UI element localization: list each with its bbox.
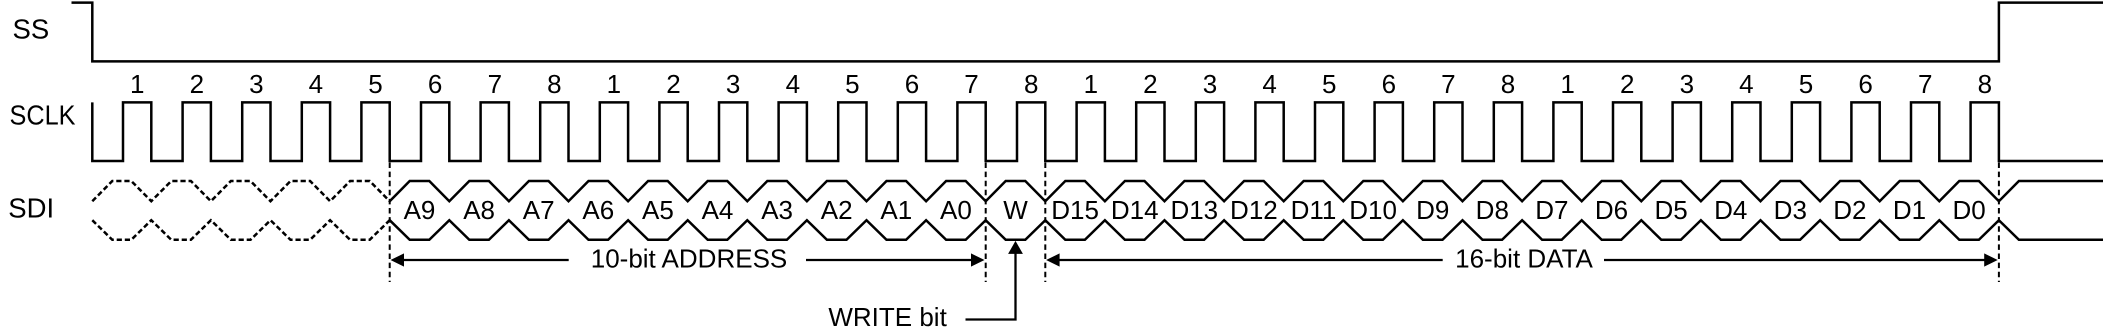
svg-text:D12: D12 bbox=[1230, 195, 1278, 225]
svg-text:4: 4 bbox=[309, 69, 323, 99]
svg-text:3: 3 bbox=[1680, 69, 1694, 99]
svg-text:A8: A8 bbox=[463, 195, 495, 225]
svg-text:5: 5 bbox=[368, 69, 382, 99]
svg-text:SS: SS bbox=[13, 13, 50, 44]
svg-text:A2: A2 bbox=[821, 195, 853, 225]
svg-text:D1: D1 bbox=[1893, 195, 1926, 225]
svg-text:2: 2 bbox=[666, 69, 680, 99]
svg-text:SCLK: SCLK bbox=[10, 100, 77, 131]
svg-text:6: 6 bbox=[428, 69, 442, 99]
svg-text:1: 1 bbox=[130, 69, 144, 99]
svg-text:A3: A3 bbox=[761, 195, 793, 225]
svg-text:8: 8 bbox=[1978, 69, 1992, 99]
svg-text:3: 3 bbox=[1203, 69, 1217, 99]
svg-text:6: 6 bbox=[1382, 69, 1396, 99]
svg-text:D10: D10 bbox=[1349, 195, 1397, 225]
WRITE bit callout elbow line bbox=[966, 250, 1016, 320]
svg-text:D7: D7 bbox=[1535, 195, 1568, 225]
SDI data bus top bbox=[390, 181, 2103, 201]
svg-text:D11: D11 bbox=[1291, 195, 1337, 225]
SDI idle bus top (dashed) bbox=[92, 181, 389, 201]
svg-text:D0: D0 bbox=[1952, 195, 1985, 225]
svg-text:3: 3 bbox=[249, 69, 263, 99]
svg-text:8: 8 bbox=[1024, 69, 1038, 99]
svg-text:A0: A0 bbox=[940, 195, 972, 225]
svg-text:1: 1 bbox=[1560, 69, 1574, 99]
10-bit ADDRESS dimension arrow: right arrowhead bbox=[971, 253, 985, 266]
svg-text:D14: D14 bbox=[1111, 195, 1159, 225]
SCLK wire: 32 clock pulses bbox=[92, 102, 2103, 161]
svg-text:3: 3 bbox=[726, 69, 740, 99]
svg-text:A5: A5 bbox=[642, 195, 674, 225]
svg-text:5: 5 bbox=[1322, 69, 1336, 99]
svg-text:5: 5 bbox=[1799, 69, 1813, 99]
svg-text:D13: D13 bbox=[1170, 195, 1218, 225]
svg-text:WRITE bit: WRITE bit bbox=[828, 302, 947, 332]
svg-text:1: 1 bbox=[1084, 69, 1098, 99]
16-bit DATA dimension arrow: right arrowhead bbox=[1984, 253, 1998, 266]
16-bit DATA dimension arrow: right line bbox=[1604, 259, 1985, 261]
svg-text:4: 4 bbox=[786, 69, 800, 99]
svg-text:D9: D9 bbox=[1416, 195, 1449, 225]
svg-text:A1: A1 bbox=[880, 195, 912, 225]
svg-text:7: 7 bbox=[488, 69, 502, 99]
dashed field boundary marker: address start bbox=[389, 163, 391, 283]
svg-text:D3: D3 bbox=[1774, 195, 1807, 225]
svg-text:7: 7 bbox=[1918, 69, 1932, 99]
SS wire: high, falling edge, low, rising edge, high bbox=[72, 3, 2103, 62]
svg-text:D8: D8 bbox=[1476, 195, 1509, 225]
svg-text:5: 5 bbox=[845, 69, 859, 99]
svg-text:2: 2 bbox=[190, 69, 204, 99]
svg-text:4: 4 bbox=[1739, 69, 1753, 99]
svg-text:7: 7 bbox=[1441, 69, 1455, 99]
WRITE bit callout arrowhead (pointing up at W cell) bbox=[1008, 241, 1023, 254]
svg-text:8: 8 bbox=[547, 69, 561, 99]
SDI data bus bottom bbox=[390, 220, 2103, 240]
svg-text:SDI: SDI bbox=[8, 193, 54, 224]
svg-text:A6: A6 bbox=[582, 195, 614, 225]
svg-text:8: 8 bbox=[1501, 69, 1515, 99]
svg-text:D15: D15 bbox=[1051, 195, 1099, 225]
svg-text:6: 6 bbox=[1858, 69, 1872, 99]
svg-text:2: 2 bbox=[1620, 69, 1634, 99]
dashed field boundary marker: address end / W start bbox=[985, 163, 987, 283]
svg-text:6: 6 bbox=[905, 69, 919, 99]
svg-text:D6: D6 bbox=[1595, 195, 1628, 225]
svg-text:D4: D4 bbox=[1714, 195, 1747, 225]
svg-text:D2: D2 bbox=[1833, 195, 1866, 225]
svg-text:16-bit DATA: 16-bit DATA bbox=[1455, 243, 1593, 273]
16-bit DATA dimension arrow: left line bbox=[1059, 259, 1443, 261]
svg-text:7: 7 bbox=[964, 69, 978, 99]
SDI idle bus bottom (dashed) bbox=[92, 220, 389, 240]
10-bit ADDRESS dimension arrow: left line bbox=[403, 259, 569, 261]
svg-text:W: W bbox=[1003, 195, 1028, 225]
svg-text:A7: A7 bbox=[523, 195, 555, 225]
svg-text:D5: D5 bbox=[1654, 195, 1687, 225]
svg-text:4: 4 bbox=[1262, 69, 1276, 99]
svg-text:A4: A4 bbox=[702, 195, 734, 225]
10-bit ADDRESS dimension arrow: left arrowhead bbox=[391, 253, 405, 266]
dashed field boundary marker: W end / data start bbox=[1044, 163, 1046, 283]
svg-text:1: 1 bbox=[607, 69, 621, 99]
svg-text:10-bit ADDRESS: 10-bit ADDRESS bbox=[591, 243, 788, 273]
svg-text:A9: A9 bbox=[404, 195, 436, 225]
16-bit DATA dimension arrow: left arrowhead bbox=[1046, 253, 1060, 266]
svg-text:2: 2 bbox=[1143, 69, 1157, 99]
10-bit ADDRESS dimension arrow: right line bbox=[806, 259, 972, 261]
dashed field boundary marker: data end bbox=[1998, 163, 2000, 283]
